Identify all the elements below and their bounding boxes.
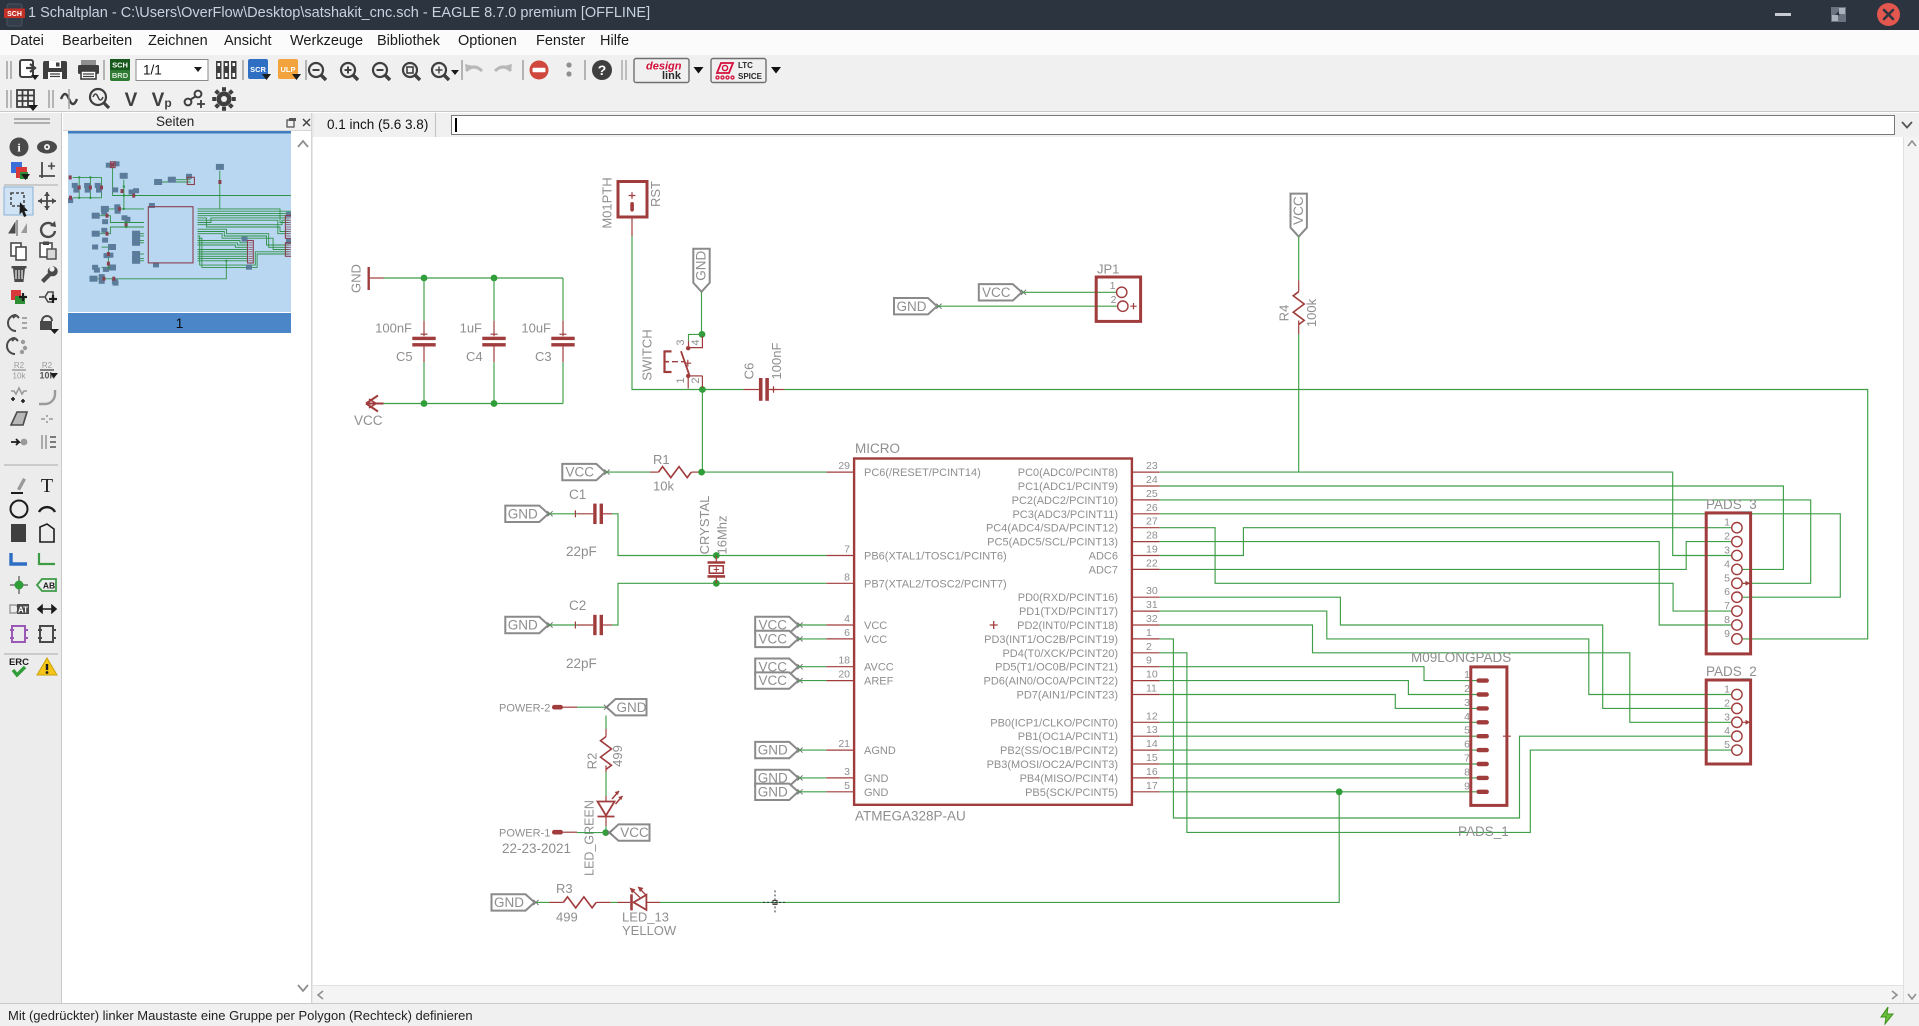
node cursor crosshair: [763, 890, 787, 914]
svg-text:PD1(TXD/PCINT17): PD1(TXD/PCINT17): [1019, 606, 1118, 618]
power VCC (pin 18): [755, 659, 798, 675]
svg-text:6: 6: [844, 627, 850, 639]
wire GND flag to R2: [605, 716, 607, 730]
svg-text:VCC: VCC: [864, 620, 887, 632]
wire PB3 to M09 pin 7: [1160, 763, 1477, 765]
wire PB4 to M09 pin 8: [1160, 777, 1477, 779]
connector PADS_2: [1706, 664, 1757, 764]
wire PB2 to M09 pin 6: [1160, 749, 1477, 751]
svg-text:C5: C5: [396, 349, 413, 364]
wire C5 top lead: [423, 278, 425, 321]
capacitor C4: [460, 321, 506, 365]
svg-text:PADS_1: PADS_1: [1458, 824, 1509, 839]
svg-text:VCC: VCC: [758, 632, 787, 647]
wire C5 bottom lead: [423, 362, 425, 403]
wire PC2 to PADS_3 pin 5: [1160, 500, 1811, 583]
pin 31 PD1(TXD/PCINT17): [1019, 599, 1160, 618]
svg-text:POWER-1: POWER-1: [499, 828, 550, 840]
wire C4 bottom lead: [493, 362, 495, 403]
wire ADC7 to PADS_3 pin 2: [1160, 542, 1732, 570]
svg-text:C1: C1: [569, 487, 586, 502]
wire R2 to LED_GREEN: [605, 772, 607, 796]
svg-text:29: 29: [838, 460, 850, 472]
wire VCC to pin 18: [798, 666, 826, 668]
connector RST (M01PTH): [599, 177, 663, 228]
pin 30 PD0(RXD/PCINT16): [1018, 585, 1160, 604]
svg-text:MICRO: MICRO: [855, 441, 900, 456]
svg-text:GND: GND: [694, 251, 709, 281]
pin 25 PC2(ADC2/PCINT10): [1012, 488, 1160, 507]
svg-text:8: 8: [844, 571, 850, 583]
svg-text:SCH: SCH: [112, 61, 128, 70]
pin 14 PB2(SS/OC1B/PCINT2): [1000, 738, 1160, 757]
svg-text:5: 5: [1464, 725, 1470, 737]
svg-text:2: 2: [1111, 294, 1117, 306]
wire PD3 to PADS_2 pin 4: [1160, 639, 1732, 818]
wire C6 long net to PADS_3 pin 9: [784, 390, 1867, 639]
svg-text:8: 8: [1724, 614, 1730, 626]
pin 3 GND: [826, 766, 888, 785]
ground GND (pin 21): [755, 742, 798, 758]
svg-text:AT: AT: [18, 606, 28, 615]
svg-text:PD6(AIN0/OC0A/PCINT22): PD6(AIN0/OC0A/PCINT22): [984, 676, 1118, 688]
wire GND to pin 3: [798, 777, 826, 779]
svg-text:1uF: 1uF: [460, 321, 482, 336]
power VCC (pin 4): [755, 617, 798, 633]
svg-text:AVCC: AVCC: [864, 662, 894, 674]
svg-text:22-23-2021: 22-23-2021: [502, 841, 571, 856]
svg-text:link: link: [662, 70, 682, 82]
svg-text:PD7(AIN1/PCINT23): PD7(AIN1/PCINT23): [1017, 690, 1118, 702]
svg-text:C4: C4: [466, 349, 483, 364]
svg-text:GND: GND: [864, 773, 889, 785]
IC MICRO ATMEGA328P-AU: [854, 441, 1132, 824]
svg-text:AREF: AREF: [864, 676, 894, 688]
svg-text:VCC: VCC: [864, 634, 887, 646]
svg-text:R2: R2: [42, 361, 53, 370]
wire PC0 to PADS_3 pin 3: [1160, 472, 1732, 555]
power VCC (pin 6): [755, 631, 798, 647]
svg-text:PB6(XTAL1/TOSC1/PCINT6): PB6(XTAL1/TOSC1/PCINT6): [864, 551, 1007, 563]
wire C3 bottom lead: [562, 362, 564, 403]
svg-text:BRD: BRD: [112, 71, 129, 80]
wire LED_13 to PB5 net: [660, 792, 1339, 903]
svg-text:9: 9: [1146, 655, 1152, 667]
svg-text:GND: GND: [758, 784, 788, 799]
svg-text:10: 10: [1146, 669, 1158, 681]
wire GND to switch: [701, 292, 703, 335]
connector JP1: [1096, 262, 1140, 322]
wire VCC to R1: [605, 471, 650, 473]
ground GND (POWER-2): [607, 699, 647, 715]
svg-text:SPICE: SPICE: [738, 72, 763, 81]
svg-text:PB3(MOSI/OC2A/PCINT3): PB3(MOSI/OC2A/PCINT3): [987, 759, 1118, 771]
power VCC (decoupling rail arrow): [354, 396, 384, 429]
node junction PB5/LED net: [1336, 788, 1343, 795]
pin 29 PC6(/RESET/PCINT14): [826, 460, 980, 479]
svg-text:VCC: VCC: [1291, 196, 1306, 225]
svg-text:PB1(OC1A/PCINT1): PB1(OC1A/PCINT1): [1018, 731, 1118, 743]
svg-text:PC2(ADC2/PCINT10): PC2(ADC2/PCINT10): [1012, 495, 1118, 507]
svg-text:CRYSTAL: CRYSTAL: [697, 496, 712, 555]
svg-text:ULP: ULP: [281, 65, 296, 74]
svg-text:V: V: [152, 90, 165, 111]
svg-text:18: 18: [838, 655, 850, 667]
node junction POWER-1/VCC: [602, 829, 609, 836]
svg-text:PC1(ADC1/PCINT9): PC1(ADC1/PCINT9): [1018, 481, 1118, 493]
wire PC4 to PADS_3 pin 7: [1160, 528, 1732, 611]
svg-text:32: 32: [1146, 613, 1158, 625]
svg-text:VCC: VCC: [354, 413, 383, 428]
wire PC5 to PADS_3 pin 8: [1160, 542, 1732, 625]
wire switch to R1 net: [701, 390, 703, 473]
ground GND (C1): [505, 506, 548, 522]
svg-text:31: 31: [1146, 599, 1158, 611]
wire ADC6 to PADS_3 pin 1: [1160, 528, 1732, 556]
svg-text:13: 13: [1146, 724, 1158, 736]
capacitor C1 22pF: [566, 487, 612, 559]
svg-text:JP1: JP1: [1097, 262, 1119, 277]
pin 17 PB5(SCK/PCINT5): [1025, 780, 1160, 799]
svg-text:24: 24: [1146, 474, 1158, 486]
svg-text:GND: GND: [508, 506, 538, 521]
pin 32 PD2(INT0/PCINT18): [1017, 613, 1160, 632]
wire C2 to XTAL2: [612, 583, 826, 625]
ground GND (C2): [505, 617, 548, 633]
wire GND to pin 5: [798, 791, 826, 793]
node junction C4 top: [491, 275, 498, 282]
power GND (JP1): [894, 298, 937, 314]
svg-text:17: 17: [1146, 780, 1158, 792]
svg-text:T: T: [41, 475, 53, 497]
crystal CRYSTAL 16Mhz: [697, 496, 730, 584]
svg-text:PB4(MISO/PCINT4): PB4(MISO/PCINT4): [1020, 773, 1118, 785]
svg-text:22pF: 22pF: [566, 656, 597, 671]
svg-text:1: 1: [1146, 627, 1152, 639]
wire GND to JP1 pin2: [937, 305, 1117, 307]
pin 23 PC0(ADC0/PCINT8): [1018, 460, 1160, 479]
svg-text:5: 5: [1724, 739, 1730, 751]
svg-text:R3: R3: [556, 881, 573, 896]
svg-text:R2: R2: [14, 361, 25, 370]
svg-text:4: 4: [690, 339, 702, 345]
svg-text:GND: GND: [617, 700, 647, 715]
wire RST net vertical: [632, 236, 744, 390]
capacitor C5: [375, 321, 436, 365]
svg-text:3: 3: [1724, 545, 1730, 557]
svg-text:PC0(ADC0/PCINT8): PC0(ADC0/PCINT8): [1018, 467, 1118, 479]
svg-text:PC5(ADC5/SCL/PCINT13): PC5(ADC5/SCL/PCINT13): [987, 537, 1118, 549]
svg-text:GND: GND: [758, 743, 788, 758]
svg-text:ERC: ERC: [9, 657, 29, 668]
svg-text:PB5(SCK/PCINT5): PB5(SCK/PCINT5): [1025, 787, 1118, 799]
LED LED_GREEN: [582, 791, 622, 876]
wire VCC to JP1 pin1: [1022, 291, 1116, 293]
power VCC (R4): [1291, 194, 1307, 237]
svg-text:20: 20: [838, 669, 850, 681]
wire PD6 to M09 pin 2: [1160, 681, 1477, 695]
node junction switch top: [699, 331, 706, 338]
svg-text:100nF: 100nF: [769, 343, 784, 380]
svg-text:11: 11: [1146, 683, 1157, 695]
svg-text:14: 14: [1146, 738, 1158, 750]
wire PD4 to PADS_2 pin 5: [1160, 653, 1732, 833]
wire PB0 to M09 pin 4: [1160, 721, 1477, 723]
svg-text:22: 22: [1146, 557, 1158, 569]
svg-text:PADS_2: PADS_2: [1706, 664, 1757, 679]
svg-text:PD3(INT1/OC2B/PCINT19): PD3(INT1/OC2B/PCINT19): [984, 634, 1118, 646]
svg-text:M09LONGPADS: M09LONGPADS: [1411, 650, 1511, 665]
node junction C4 bottom: [491, 400, 498, 407]
svg-text:PB0(ICP1/CLKO/PCINT0): PB0(ICP1/CLKO/PCINT0): [990, 717, 1118, 729]
svg-text:8: 8: [1464, 766, 1470, 778]
wire PB1 to M09 pin 5: [1160, 735, 1477, 737]
svg-text:PB2(SS/OC1B/PCINT2): PB2(SS/OC1B/PCINT2): [1000, 745, 1118, 757]
power VCC (POWER-1): [610, 824, 650, 840]
pin 6 VCC: [826, 627, 887, 646]
node junction XTAL1: [713, 552, 720, 559]
wire PD7 to M09 pin 3: [1160, 695, 1477, 709]
svg-text:POWER-2: POWER-2: [499, 703, 550, 715]
svg-text:28: 28: [1146, 530, 1158, 542]
svg-text:PD0(RXD/PCINT16): PD0(RXD/PCINT16): [1018, 592, 1118, 604]
ground GND (switch): [693, 249, 709, 292]
svg-text:PC3(ADC3/PCINT11): PC3(ADC3/PCINT11): [1012, 509, 1118, 521]
svg-text:SCH: SCH: [7, 11, 22, 18]
svg-text:10k: 10k: [653, 479, 674, 494]
resistor R1 10k: [650, 452, 700, 494]
svg-text:VCC: VCC: [566, 465, 595, 480]
svg-text:2: 2: [690, 377, 702, 383]
svg-text:?: ?: [598, 62, 607, 78]
wire PD2 to PADS_2 pin 3: [1160, 625, 1732, 722]
wire GND to pin 21: [798, 749, 826, 751]
wire PD1 to PADS_2 pin 1: [1160, 611, 1732, 694]
svg-text:VCC: VCC: [982, 285, 1011, 300]
pin 27 PC4(ADC4/SDA/PCINT12): [986, 516, 1160, 535]
svg-text:2: 2: [1724, 531, 1730, 543]
svg-text:9: 9: [1724, 628, 1730, 640]
svg-text:4: 4: [844, 613, 850, 625]
pin 12 PB0(ICP1/CLKO/PCINT0): [990, 710, 1159, 729]
svg-text:R4: R4: [1276, 305, 1291, 322]
power VCC (JP1): [979, 284, 1022, 300]
wire R1 to pin 29: [700, 471, 826, 473]
pin 28 PC5(ADC5/SCL/PCINT13): [987, 530, 1160, 549]
svg-text:C3: C3: [535, 349, 552, 364]
wire PB5 to M09 pin 9: [1160, 791, 1477, 793]
wire VCC to pin 6: [798, 638, 826, 640]
capacitor C3: [521, 321, 574, 365]
wire VCC rail bottom: [384, 403, 564, 405]
svg-text:1: 1: [1724, 517, 1730, 529]
svg-text:R2: R2: [584, 753, 599, 770]
svg-text:VCC: VCC: [758, 673, 787, 688]
pin 13 PB1(OC1A/PCINT1): [1018, 724, 1160, 743]
wire R3 to LED_13: [610, 901, 617, 903]
svg-text:3: 3: [1464, 697, 1470, 709]
svg-text:100nF: 100nF: [375, 321, 412, 336]
pin 21 AGND: [826, 738, 896, 757]
svg-text:V: V: [125, 90, 138, 111]
svg-text:GND: GND: [348, 264, 363, 293]
switch SWITCH (reset button): [639, 329, 702, 388]
svg-text:9: 9: [1464, 780, 1470, 792]
svg-text:12: 12: [1146, 710, 1158, 722]
ground GND (pin 3): [755, 770, 798, 786]
power VCC (R1): [562, 464, 605, 480]
svg-text:10uF: 10uF: [521, 321, 551, 336]
ground GND (R3): [492, 894, 535, 910]
svg-text:7: 7: [844, 544, 850, 556]
wire VCC to pin 20: [798, 680, 826, 682]
pin 1 PD3(INT1/OC2B/PCINT19): [984, 627, 1160, 646]
svg-text:PADS_3: PADS_3: [1706, 497, 1757, 512]
svg-text:2: 2: [1146, 641, 1152, 653]
pin 15 PB3(MOSI/OC2A/PCINT3): [987, 752, 1160, 771]
svg-text:7: 7: [1464, 753, 1470, 765]
pin 16 PB4(MISO/PCINT4): [1020, 766, 1160, 785]
svg-text:GND: GND: [897, 299, 927, 314]
svg-text:4: 4: [1724, 558, 1730, 570]
connector PADS_1 M09LONGPADS: [1411, 650, 1511, 839]
svg-text:C2: C2: [569, 598, 586, 613]
svg-text:30: 30: [1146, 585, 1158, 597]
svg-text:1: 1: [675, 377, 687, 383]
svg-text:1: 1: [1724, 684, 1730, 696]
wire POWER-2 to GND: [577, 706, 607, 708]
svg-text:M01PTH: M01PTH: [599, 177, 614, 228]
svg-text:ADC7: ADC7: [1089, 564, 1118, 576]
svg-text:499: 499: [556, 910, 578, 925]
wire VCC to R4: [1298, 237, 1300, 281]
svg-text:1/1: 1/1: [143, 63, 162, 78]
pin 4 VCC: [826, 613, 887, 632]
svg-text:4: 4: [1724, 725, 1730, 737]
pin 2 PD4(T0/XCK/PCINT20): [1002, 641, 1159, 660]
svg-text:LTC: LTC: [738, 61, 753, 70]
wire PD0 to PADS_2 pin 2: [1160, 597, 1732, 708]
svg-text:1: 1: [1464, 669, 1470, 681]
svg-text:ATMEGA328P-AU: ATMEGA328P-AU: [855, 809, 966, 824]
svg-text:ADC6: ADC6: [1089, 551, 1118, 563]
svg-text:PB7(XTAL2/TOSC2/PCINT7): PB7(XTAL2/TOSC2/PCINT7): [864, 578, 1007, 590]
svg-text:3: 3: [1724, 711, 1730, 723]
pin 8 PB7(XTAL2/TOSC2/PCINT7): [826, 571, 1006, 590]
svg-text:4: 4: [1464, 711, 1470, 723]
svg-text:27: 27: [1146, 516, 1158, 528]
svg-text:AGND: AGND: [864, 745, 896, 757]
node junction R1/switch: [698, 469, 705, 476]
wire POWER-1 to junction: [577, 832, 606, 834]
svg-text:PD5(T1/OC0B/PCINT21): PD5(T1/OC0B/PCINT21): [995, 662, 1118, 674]
svg-text:R1: R1: [653, 452, 670, 467]
svg-text:LED_GREEN: LED_GREEN: [582, 800, 596, 876]
svg-text:GND: GND: [508, 618, 538, 633]
node junction switch/reset: [699, 386, 706, 393]
svg-text:100k: 100k: [1304, 298, 1319, 327]
svg-text:1: 1: [1110, 280, 1116, 292]
resistor R3 499: [536, 881, 610, 925]
svg-text:19: 19: [1146, 544, 1158, 556]
wire GND to C2: [548, 624, 577, 626]
pin 26 PC3(ADC3/PCINT11): [1012, 502, 1159, 521]
wire RST pin lead: [631, 217, 633, 236]
resistor R4 100k: [1276, 280, 1319, 334]
svg-text:25: 25: [1146, 488, 1158, 500]
svg-text:GND: GND: [864, 787, 889, 799]
svg-text:PC4(ADC4/SDA/PCINT12): PC4(ADC4/SDA/PCINT12): [986, 523, 1118, 535]
svg-text:PD4(T0/XCK/PCINT20): PD4(T0/XCK/PCINT20): [1002, 648, 1118, 660]
wire C1 to XTAL1: [612, 514, 826, 556]
svg-text:PC6(/RESET/PCINT14): PC6(/RESET/PCINT14): [864, 467, 981, 479]
wire VCC to pin 4: [798, 624, 826, 626]
wire switch pin3 jog: [689, 334, 703, 341]
wire PC3 to PADS_3 pin 6: [1160, 514, 1841, 597]
pin 5 GND: [826, 780, 888, 799]
svg-text:6: 6: [1464, 739, 1470, 751]
node junction C5 top: [421, 275, 428, 282]
pin 19 ADC6: [1089, 544, 1160, 563]
svg-text:7: 7: [1724, 600, 1730, 612]
svg-text:15: 15: [1146, 752, 1158, 764]
ground GND (decoupling rail): [348, 264, 383, 293]
svg-text:499: 499: [610, 745, 625, 767]
node junction XTAL2: [713, 580, 720, 587]
pin 11 PD7(AIN1/PCINT23): [1017, 683, 1160, 702]
capacitor C2 22pF: [566, 598, 612, 671]
ground GND (pin 5): [755, 784, 798, 800]
power VCC (pin 20): [755, 672, 798, 688]
wire PD5 to M09 pin 1: [1160, 667, 1477, 681]
connector PADS_3: [1706, 497, 1757, 654]
svg-text:GND: GND: [494, 895, 524, 910]
svg-text:YELLOW: YELLOW: [622, 923, 677, 938]
svg-text:10k: 10k: [13, 372, 27, 381]
svg-text:SCR: SCR: [250, 65, 266, 74]
svg-text:SWITCH: SWITCH: [639, 329, 654, 380]
pin 18 AVCC: [826, 655, 894, 674]
pin 9 PD5(T1/OC0B/PCINT21): [995, 655, 1160, 674]
svg-text:VCC: VCC: [620, 825, 649, 840]
svg-text:6: 6: [1724, 586, 1730, 598]
pin 7 PB6(XTAL1/TOSC1/PCINT6): [826, 544, 1006, 563]
wire GND to C1: [548, 513, 577, 515]
svg-text:C6: C6: [741, 363, 756, 380]
pin 20 AREF: [826, 669, 893, 688]
svg-text:PD2(INT0/PCINT18): PD2(INT0/PCINT18): [1017, 620, 1118, 632]
capacitor C6: [741, 343, 784, 401]
svg-text:2: 2: [1724, 697, 1730, 709]
svg-text:16Mhz: 16Mhz: [715, 515, 730, 554]
wire GND rail top: [384, 277, 564, 279]
wire LED_GREEN to VCC: [605, 817, 607, 827]
wire C4 top lead: [493, 278, 495, 321]
svg-text:AB: AB: [43, 581, 55, 591]
resistor R2 499: [584, 729, 625, 772]
pin 24 PC1(ADC1/PCINT9): [1018, 474, 1160, 493]
LED LED_13 YELLOW: [618, 887, 677, 939]
svg-text:26: 26: [1146, 502, 1158, 514]
svg-text:p: p: [164, 96, 171, 110]
svg-text:3: 3: [844, 766, 850, 778]
svg-text:3: 3: [675, 339, 687, 345]
svg-text:5: 5: [844, 780, 850, 792]
svg-text:22pF: 22pF: [566, 544, 597, 559]
wire R4 down to PC0 net: [1298, 334, 1300, 472]
svg-text:21: 21: [838, 738, 850, 750]
pin 22 ADC7: [1089, 557, 1160, 576]
